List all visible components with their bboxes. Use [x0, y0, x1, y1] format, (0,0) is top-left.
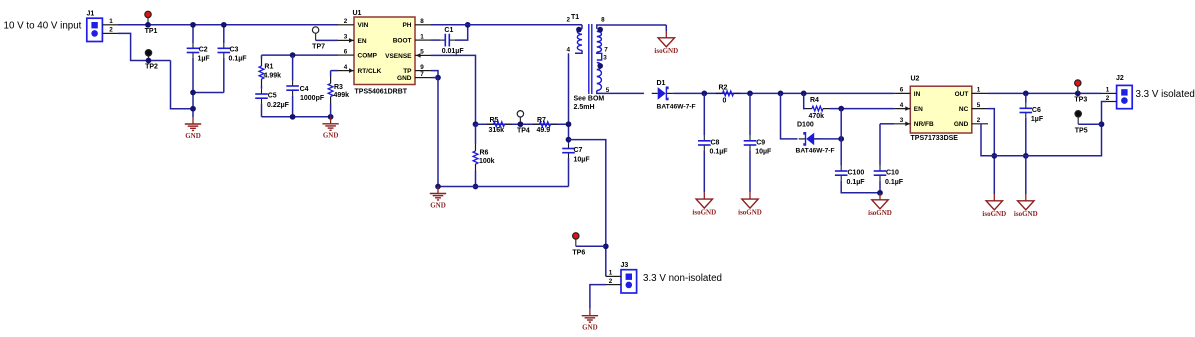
svg-text:EN: EN	[358, 38, 367, 45]
svg-text:6: 6	[900, 87, 904, 94]
svg-text:C6: C6	[1032, 107, 1041, 114]
connector J2	[1101, 75, 1132, 109]
svg-text:C8: C8	[711, 139, 720, 146]
IC U2 TPS71733DSE	[894, 76, 988, 143]
svg-text:C2: C2	[199, 46, 208, 53]
svg-text:TPS71733DSE: TPS71733DSE	[911, 135, 959, 142]
svg-text:TP: TP	[403, 68, 412, 75]
svg-text:10 V to 40 V input: 10 V to 40 V input	[4, 21, 82, 32]
svg-text:isoGND: isoGND	[654, 47, 678, 55]
wire: C1 to PH	[455, 22, 471, 40]
svg-text:GND: GND	[582, 324, 598, 332]
svg-text:U1: U1	[353, 10, 362, 17]
svg-text:0.1µF: 0.1µF	[847, 179, 866, 186]
ground GND (input)	[185, 117, 201, 140]
svg-text:BAT46W-7-F: BAT46W-7-F	[657, 104, 696, 111]
svg-text:TP7: TP7	[312, 44, 325, 51]
svg-text:VIN: VIN	[358, 22, 369, 29]
wire: D100 to EN node	[814, 136, 844, 142]
svg-text:isoGND: isoGND	[692, 209, 716, 217]
svg-text:TPS54061DRBT: TPS54061DRBT	[355, 88, 408, 95]
svg-text:1: 1	[977, 87, 981, 94]
svg-text:isoGND: isoGND	[868, 209, 892, 217]
test point TP4	[517, 111, 530, 135]
connector J3	[606, 262, 637, 293]
svg-text:0.22µF: 0.22µF	[267, 102, 290, 109]
svg-text:3: 3	[603, 54, 607, 61]
wire: feedback line	[476, 123, 569, 125]
svg-text:2: 2	[344, 18, 348, 25]
svg-text:2: 2	[109, 27, 113, 34]
wire: iso gnd rail	[994, 102, 1106, 156]
wire: U2 GND down	[981, 124, 994, 156]
svg-text:1µF: 1µF	[198, 56, 211, 63]
svg-text:GND: GND	[323, 132, 339, 140]
svg-text:10µF: 10µF	[574, 156, 591, 163]
capacitor C4	[286, 55, 325, 117]
svg-text:GND: GND	[954, 121, 969, 128]
svg-text:NC: NC	[959, 106, 969, 113]
svg-text:1: 1	[1106, 87, 1110, 94]
svg-text:6: 6	[344, 48, 348, 55]
svg-text:3: 3	[344, 34, 348, 41]
svg-text:2: 2	[567, 17, 571, 24]
svg-text:NR/FB: NR/FB	[914, 121, 934, 128]
svg-text:U2: U2	[911, 76, 920, 83]
svg-text:5: 5	[977, 102, 981, 109]
iso ground isoGND (C8)	[692, 192, 716, 216]
svg-text:10µF: 10µF	[755, 149, 772, 156]
connector J1	[87, 11, 119, 42]
svg-text:C7: C7	[574, 147, 583, 154]
wire: gnd rail (primary)	[435, 184, 568, 190]
svg-text:0.1µF: 0.1µF	[710, 149, 729, 156]
wire: D100 branch	[781, 93, 798, 138]
svg-text:4: 4	[900, 102, 904, 109]
wire: COMP net	[262, 52, 339, 58]
svg-text:2: 2	[1106, 95, 1110, 102]
svg-text:7: 7	[604, 46, 608, 53]
svg-text:3.3 V isolated: 3.3 V isolated	[1136, 89, 1195, 100]
svg-text:R3: R3	[334, 84, 343, 91]
iso ground isoGND (C9)	[738, 192, 762, 216]
svg-text:R6: R6	[480, 150, 489, 157]
svg-text:COMP: COMP	[358, 53, 378, 60]
wire: VSENSE net	[431, 55, 478, 127]
wire: non-isolated out	[569, 140, 609, 277]
svg-text:TP3: TP3	[1074, 97, 1087, 104]
svg-text:isoGND: isoGND	[982, 210, 1006, 218]
wire: TP pin to GND pin	[431, 71, 441, 81]
capacitor C8	[698, 93, 728, 192]
test point TP2	[145, 50, 158, 71]
svg-text:C3: C3	[230, 46, 239, 53]
iso ground isoGND (U2)	[982, 194, 1006, 218]
wire: U1 GND down	[431, 78, 438, 187]
ground GND (J3)	[582, 309, 598, 332]
capacitor C3	[218, 22, 248, 93]
resistor R7	[533, 117, 558, 134]
svg-text:TP6: TP6	[572, 249, 585, 256]
svg-text:1µF: 1µF	[1031, 116, 1044, 123]
svg-text:GND: GND	[185, 132, 201, 140]
svg-text:R7: R7	[537, 117, 546, 124]
svg-text:C9: C9	[756, 139, 765, 146]
IC U1 TPS54061DRBT	[338, 10, 431, 95]
svg-text:7: 7	[420, 71, 424, 78]
svg-text:IN: IN	[914, 91, 921, 98]
svg-text:See BOM: See BOM	[574, 95, 605, 102]
svg-text:49.9: 49.9	[537, 127, 551, 134]
svg-text:J3: J3	[621, 262, 629, 269]
svg-text:TP2: TP2	[145, 64, 158, 71]
wire: T1 pin4 down	[566, 53, 572, 143]
svg-text:0.1µF: 0.1µF	[229, 56, 248, 63]
svg-text:C10: C10	[886, 170, 899, 177]
wire: C2/C3 bottom	[190, 90, 224, 117]
capacitor C5	[255, 86, 289, 117]
wire: J1 pin2 to GND net	[118, 33, 171, 60]
resistor R1	[259, 55, 281, 86]
svg-text:470k: 470k	[809, 113, 825, 120]
svg-text:1: 1	[109, 18, 113, 25]
svg-text:R2: R2	[719, 85, 728, 92]
svg-text:R5: R5	[490, 117, 499, 124]
svg-text:0: 0	[723, 97, 727, 104]
capacitor C2	[187, 22, 211, 93]
test point TP1	[145, 11, 158, 35]
resistor R2	[716, 85, 741, 105]
capacitor C6	[1020, 93, 1044, 158]
svg-text:TP5: TP5	[1075, 127, 1088, 134]
svg-text:499k: 499k	[334, 92, 350, 99]
svg-text:1: 1	[609, 270, 613, 277]
wire: BOOT net	[431, 39, 440, 41]
wire: PH rail to T1	[431, 24, 582, 26]
svg-text:VSENSE: VSENSE	[385, 53, 412, 60]
svg-text:R4: R4	[810, 97, 819, 104]
svg-text:C5: C5	[268, 93, 277, 100]
svg-text:3: 3	[900, 117, 904, 124]
iso ground isoGND (C10)	[868, 193, 892, 217]
svg-text:isoGND: isoGND	[738, 209, 762, 217]
svg-text:TP4: TP4	[517, 127, 530, 134]
iso ground isoGND (T1 pin8)	[654, 25, 678, 55]
wire: EN to C100	[840, 109, 842, 166]
svg-text:R1: R1	[264, 64, 273, 71]
test point TP5	[1075, 111, 1102, 135]
svg-text:2: 2	[609, 278, 613, 285]
svg-text:GND: GND	[397, 75, 412, 82]
svg-text:100k: 100k	[479, 158, 495, 165]
svg-text:4: 4	[567, 47, 571, 54]
svg-text:PH: PH	[402, 22, 411, 29]
svg-text:C100: C100	[848, 170, 865, 177]
svg-text:BAT46W-7-F: BAT46W-7-F	[796, 148, 835, 155]
svg-text:3.3 V non-isolated: 3.3 V non-isolated	[643, 273, 722, 284]
wire: TP2 branch down	[171, 61, 194, 109]
svg-text:C1: C1	[444, 27, 453, 34]
test point TP7	[312, 27, 338, 51]
wire: NC down	[988, 109, 997, 194]
label: 3.3 V isolated	[1136, 89, 1195, 100]
svg-text:1: 1	[420, 33, 424, 40]
capacitor C9	[744, 93, 772, 192]
label: 10 V to 40 V input	[4, 21, 82, 32]
svg-text:isoGND: isoGND	[1014, 210, 1038, 218]
svg-text:8: 8	[601, 16, 605, 23]
test point TP3	[1074, 80, 1087, 104]
svg-text:2.5mH: 2.5mH	[574, 104, 595, 111]
test point TP6	[572, 233, 605, 257]
svg-text:T1: T1	[571, 14, 579, 21]
wire: RT/CLK net	[331, 70, 338, 72]
svg-text:RT/CLK: RT/CLK	[358, 68, 382, 75]
transformer T1	[567, 14, 667, 111]
ground GND (U1)	[430, 187, 446, 210]
svg-text:J2: J2	[1116, 75, 1124, 82]
svg-text:9: 9	[420, 64, 424, 71]
svg-text:OUT: OUT	[955, 91, 969, 98]
svg-text:C4: C4	[300, 86, 309, 93]
svg-text:EN: EN	[914, 106, 923, 113]
svg-text:4: 4	[344, 64, 348, 71]
ground GND (comp)	[322, 117, 338, 140]
svg-text:4.99k: 4.99k	[264, 72, 282, 79]
wire: main input rail	[118, 24, 338, 26]
svg-text:0.01µF: 0.01µF	[442, 48, 465, 55]
wire: J3 pin2 to GND	[590, 285, 606, 309]
capacitor C1	[440, 27, 464, 55]
wire: NR/FB net	[880, 123, 894, 125]
svg-text:TP1: TP1	[145, 28, 158, 35]
wire: EN net	[830, 106, 894, 112]
svg-text:1000pF: 1000pF	[300, 95, 325, 102]
svg-text:2: 2	[977, 117, 981, 124]
wire: OUT rail	[988, 91, 1101, 97]
diode D1 BAT46W-7-F	[652, 80, 696, 111]
diode D100 BAT46W-7-F	[796, 121, 835, 154]
capacitor C100	[835, 166, 880, 193]
svg-text:8: 8	[420, 18, 424, 25]
wire: secondary rail	[673, 91, 894, 97]
resistor R4	[805, 97, 830, 120]
svg-text:0.1µF: 0.1µF	[885, 179, 904, 186]
iso ground isoGND (C6)	[1014, 156, 1038, 218]
svg-text:5: 5	[420, 49, 424, 56]
svg-text:BOOT: BOOT	[393, 38, 412, 45]
svg-text:D100: D100	[797, 121, 814, 128]
svg-text:5: 5	[606, 87, 610, 94]
svg-text:GND: GND	[430, 201, 446, 209]
resistor R6	[473, 124, 495, 189]
svg-text:D1: D1	[657, 80, 666, 87]
wire: R4 branch	[804, 93, 805, 108]
svg-text:316k: 316k	[489, 127, 505, 134]
capacitor C10	[874, 124, 904, 196]
wire: comp bottom rail	[262, 114, 334, 120]
resistor R5	[487, 117, 512, 134]
svg-text:J1: J1	[87, 11, 95, 18]
label: 3.3 V non-isolated	[643, 273, 722, 284]
resistor R3	[328, 71, 349, 117]
capacitor C7	[562, 143, 590, 186]
